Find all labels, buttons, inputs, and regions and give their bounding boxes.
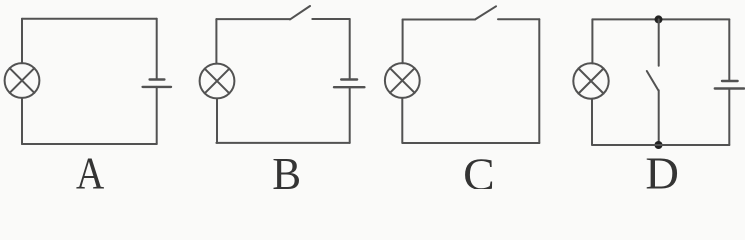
- wire C right: [538, 19, 540, 143]
- circuit D: [573, 15, 744, 198]
- wire A right upper: [156, 19, 158, 80]
- switch S_B (open): [290, 6, 310, 19]
- battery B_A: [143, 80, 171, 87]
- wire D right lower: [728, 89, 730, 146]
- wire A bottom: [22, 143, 157, 145]
- wire C left upper: [402, 20, 404, 64]
- wire D middle lower: [658, 90, 660, 145]
- wire B right lower: [349, 87, 351, 143]
- label C: [463, 149, 495, 200]
- wire B top left: [216, 18, 290, 20]
- circuit B: [200, 6, 365, 199]
- wire D bottom: [592, 144, 729, 146]
- svg-text:A: A: [76, 149, 104, 189]
- lamp L_A: [5, 63, 40, 98]
- wire C left lower: [401, 98, 403, 143]
- wire D right upper: [728, 19, 730, 81]
- wire A top: [22, 18, 157, 20]
- battery B_B: [334, 80, 364, 88]
- wire A left lower: [21, 98, 23, 144]
- svg-text:C: C: [463, 149, 495, 189]
- lamp L_B: [200, 64, 235, 99]
- wire D middle upper: [658, 19, 660, 65]
- wire B left upper: [215, 19, 217, 64]
- lamp L_D: [573, 63, 608, 98]
- wire A right lower: [156, 87, 158, 144]
- battery B_D: [715, 81, 744, 89]
- wire D left lower: [591, 99, 593, 145]
- label A: [76, 149, 104, 200]
- node D bottom junction: [655, 141, 663, 149]
- circuit A: [5, 19, 171, 200]
- wire A left upper: [21, 19, 23, 64]
- lamp L_C: [385, 63, 420, 98]
- svg-text:D: D: [645, 148, 679, 189]
- switch S_D (open): [647, 71, 659, 90]
- wire C bottom: [403, 142, 540, 144]
- label B: [272, 148, 301, 200]
- wire D left upper: [591, 19, 593, 63]
- wire B bottom: [216, 142, 349, 144]
- svg-text:B: B: [272, 148, 301, 189]
- node D top junction: [655, 15, 663, 23]
- label D: [645, 148, 679, 199]
- wire D top: [592, 18, 729, 20]
- circuit C: [385, 6, 539, 200]
- switch S_C (open): [475, 6, 496, 19]
- wire B top right: [312, 18, 349, 20]
- wire C top right: [498, 18, 539, 20]
- wire B right upper: [349, 19, 351, 80]
- wire B left lower: [216, 98, 218, 142]
- wire C top left: [403, 19, 475, 21]
